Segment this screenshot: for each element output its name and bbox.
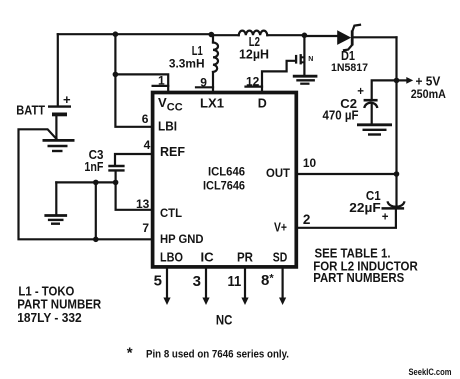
svg-text:V: V xyxy=(158,95,167,110)
svg-text:NC: NC xyxy=(216,313,233,328)
svg-text:8*: 8* xyxy=(261,272,274,289)
svg-text:+: + xyxy=(357,86,364,98)
svg-text:12µH: 12µH xyxy=(239,48,269,62)
svg-text:11: 11 xyxy=(228,273,242,290)
svg-text:2: 2 xyxy=(303,212,311,227)
svg-text:187LY - 332: 187LY - 332 xyxy=(17,310,82,325)
svg-text:3: 3 xyxy=(193,273,201,290)
svg-text:D1: D1 xyxy=(341,49,355,63)
svg-text:BATT: BATT xyxy=(16,103,45,118)
svg-text:13: 13 xyxy=(136,197,150,211)
svg-text:LX1: LX1 xyxy=(200,96,224,110)
svg-text:N: N xyxy=(308,56,313,63)
svg-text:IC: IC xyxy=(201,251,214,265)
svg-text:HP GND: HP GND xyxy=(160,232,204,246)
svg-text:D: D xyxy=(258,96,267,110)
svg-text:SD: SD xyxy=(273,251,288,265)
svg-text:+: + xyxy=(63,92,71,107)
svg-text:+: + xyxy=(382,212,389,224)
svg-text:1: 1 xyxy=(158,74,165,88)
svg-text:22µF: 22µF xyxy=(349,201,381,215)
svg-text:CTL: CTL xyxy=(160,206,182,220)
svg-text:1nF: 1nF xyxy=(84,160,103,174)
svg-text:5: 5 xyxy=(154,273,162,290)
svg-text:*: * xyxy=(127,345,133,362)
svg-text:LBI: LBI xyxy=(158,119,177,133)
svg-text:10: 10 xyxy=(303,156,317,170)
svg-text:Pin 8 used on 7646 series only: Pin 8 used on 7646 series only. xyxy=(146,349,289,361)
svg-text:4: 4 xyxy=(144,138,151,152)
svg-text:PART NUMBERS: PART NUMBERS xyxy=(313,270,404,285)
svg-text:ICL646: ICL646 xyxy=(208,164,245,178)
svg-text:CC: CC xyxy=(167,102,183,114)
svg-text:470 µF: 470 µF xyxy=(323,109,359,123)
svg-text:OUT: OUT xyxy=(266,166,291,180)
svg-text:SeekIC.com: SeekIC.com xyxy=(409,367,452,378)
svg-text:LBO: LBO xyxy=(160,251,183,265)
svg-text:6: 6 xyxy=(142,112,149,126)
svg-text:PR: PR xyxy=(237,251,253,265)
svg-text:1N5817: 1N5817 xyxy=(331,62,368,74)
svg-text:9: 9 xyxy=(200,75,207,89)
svg-text:REF: REF xyxy=(160,145,185,159)
svg-text:ICL7646: ICL7646 xyxy=(203,178,245,192)
svg-text:7: 7 xyxy=(142,221,149,235)
svg-text:12: 12 xyxy=(246,74,260,88)
svg-text:V+: V+ xyxy=(274,221,287,235)
svg-text:3.3mH: 3.3mH xyxy=(169,56,205,70)
svg-text:250mA: 250mA xyxy=(411,87,446,101)
